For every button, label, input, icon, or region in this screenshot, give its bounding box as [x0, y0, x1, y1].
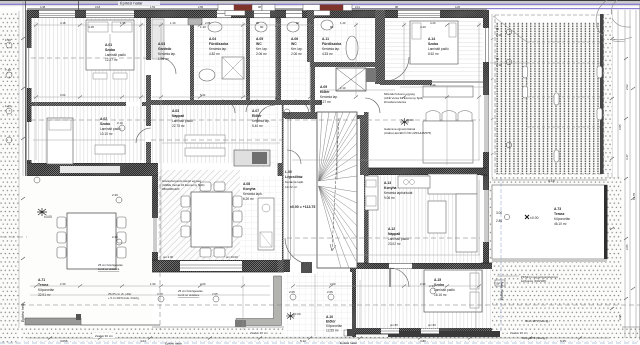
- svg-text:L.00: L.00: [285, 170, 292, 174]
- svg-text:2.30: 2.30: [60, 282, 66, 286]
- svg-text:Építési határ: Építési határ: [165, 341, 182, 345]
- svg-text:2.06 m²: 2.06 m²: [291, 52, 302, 56]
- svg-text:2.00: 2.00: [200, 282, 206, 286]
- svg-text:2.10: 2.10: [117, 121, 123, 125]
- svg-text:2.05: 2.05: [289, 290, 295, 294]
- shaft with X: [336, 68, 376, 91]
- svg-text:1.90: 1.90: [150, 282, 156, 286]
- svg-text:2.05: 2.05: [212, 292, 218, 296]
- terrace A.73 white rect: [492, 179, 608, 340]
- circled markers: [6, 42, 436, 302]
- stairs: [285, 112, 357, 268]
- svg-text:±0.00: ±0.00: [530, 216, 539, 220]
- windows in top wall: [39, 11, 440, 18]
- svg-text:Ker. lap.: Ker. lap.: [291, 47, 303, 51]
- svg-text:Konyha: Konyha: [243, 187, 256, 191]
- dashed lines: [2, 58, 640, 330]
- svg-text:5.27 m²: 5.27 m²: [320, 100, 331, 104]
- svg-text:A.01: A.01: [105, 43, 112, 47]
- svg-text:2.00: 2.00: [330, 282, 336, 286]
- svg-text:Fürdőszoba: Fürdőszoba: [209, 42, 228, 46]
- svg-text:Zsaluk 30 cm: Zsaluk 30 cm: [95, 334, 113, 338]
- A.71 terrace left: [21, 176, 152, 328]
- svg-text:Kerámia lap.: Kerámia lap.: [158, 52, 176, 56]
- svg-text:2.30: 2.30: [112, 235, 118, 239]
- svg-text:4.48: 4.48: [40, 5, 46, 9]
- svg-text:2.10: 2.10: [496, 33, 502, 37]
- stair landing boundary: [288, 119, 291, 260]
- svg-text:Kőporcelán: Kőporcelán: [326, 324, 342, 328]
- dining deck area: [158, 170, 242, 260]
- svg-text:4.53 m²: 4.53 m²: [322, 52, 333, 56]
- left stipple band: [0, 0, 23, 345]
- svg-text:3.065: 3.065: [60, 339, 68, 343]
- svg-text:1.40: 1.40: [5, 38, 11, 42]
- svg-text:pm 80: pm 80: [428, 323, 436, 327]
- stairwell right wall: [364, 112, 369, 263]
- A.02 Szoba: [32, 106, 147, 164]
- blue construction notes: [98, 263, 203, 297]
- svg-text:Laminált padló: Laminált padló: [100, 127, 121, 131]
- svg-text:Szoba: Szoba: [428, 42, 438, 46]
- svg-text:1.10: 1.10: [170, 21, 176, 25]
- exterior right wall: [483, 10, 489, 330]
- A.08 Konyha: [240, 176, 282, 260]
- svg-text:A.02: A.02: [100, 117, 107, 121]
- bottom dimension lines: [27, 337, 610, 339]
- svg-text:5.40 m²: 5.40 m²: [252, 124, 263, 128]
- svg-text:16.16 m²: 16.16 m²: [434, 293, 447, 297]
- svg-text:4.18: 4.18: [88, 25, 94, 29]
- svg-text:3.18: 3.18: [95, 5, 101, 9]
- horizontal wall y168-175 (top of A.12/A.13): [364, 168, 487, 175]
- svg-text:1.52: 1.52: [150, 5, 156, 9]
- svg-text:Ker. lap.: Ker. lap.: [256, 47, 268, 51]
- svg-text:Előtér: Előtér: [320, 90, 330, 94]
- svg-text:4.20: 4.20: [430, 21, 436, 25]
- svg-text:Építési határ: Építési határ: [120, 1, 143, 6]
- tree arcs top-right corner: [596, 0, 632, 41]
- svg-text:9.06 m²: 9.06 m²: [384, 196, 395, 200]
- svg-text:A.03: A.03: [172, 109, 179, 113]
- table: [67, 213, 116, 269]
- svg-text:Szoba: Szoba: [434, 283, 444, 287]
- dotted terrace top-right: [490, 14, 606, 177]
- blue dashed construction-limit line right: [499, 177, 504, 332]
- svg-text:2.05: 2.05: [618, 124, 622, 130]
- A.04 Fürdőszoba: [188, 18, 246, 100]
- svg-text:Kerámia lap.: Kerámia lap.: [252, 119, 270, 123]
- svg-text:1.40: 1.40: [340, 21, 346, 25]
- svg-text:90: 90: [256, 21, 260, 25]
- svg-text:A.04: A.04: [209, 37, 216, 41]
- A.03 Nappali: [151, 105, 282, 163]
- left plot vertical line: [25, 0, 27, 176]
- svg-text:4.82 m²: 4.82 m²: [209, 52, 220, 56]
- svg-text:2.05: 2.05: [618, 314, 622, 320]
- dark bar bottom right: [388, 331, 500, 337]
- bottom stipple strip: [21, 327, 640, 342]
- A.01 Szoba: [32, 18, 147, 102]
- svg-text:90: 90: [330, 25, 334, 29]
- svg-text:Kerámia lap.: Kerámia lap.: [209, 47, 227, 51]
- dining set right wing: [400, 86, 473, 163]
- svg-text:980x600x420: 980x600x420: [162, 187, 180, 191]
- svg-text:Szoba: Szoba: [105, 48, 115, 52]
- svg-text:A.71: A.71: [38, 278, 45, 282]
- svg-text:2.05: 2.05: [327, 290, 333, 294]
- svg-text:WC: WC: [256, 42, 262, 46]
- svg-text:Nappali: Nappali: [172, 114, 184, 118]
- svg-text:A.09: A.09: [320, 85, 327, 89]
- svg-text:Előtér: Előtér: [252, 114, 262, 118]
- top property line band: [0, 0, 640, 9]
- A.10 Előtér entry court: [284, 262, 353, 337]
- vent boxes + maroon blocks on top wall: [218, 5, 352, 16]
- svg-text:Zsaluk 30 cm: Zsaluk 30 cm: [510, 331, 528, 335]
- A.14 Szoba: [385, 18, 483, 81]
- svg-text:2.86: 2.86: [496, 219, 502, 223]
- horizontal wall below A.14: [380, 80, 483, 85]
- svg-text:A.06: A.06: [291, 37, 298, 41]
- svg-text:2.86: 2.86: [625, 244, 629, 250]
- svg-text:22.75 m²: 22.75 m²: [172, 124, 185, 128]
- svg-text:Építési határ: Építési határ: [340, 340, 357, 345]
- svg-text:Konyha: Konyha: [384, 186, 397, 190]
- svg-text:kerül az oldalára: kerül az oldalára: [98, 267, 120, 271]
- svg-text:A.03: A.03: [158, 42, 165, 46]
- svg-text:1.10: 1.10: [200, 25, 206, 29]
- vertical interior walls: [146, 18, 151, 163]
- svg-text:3.80: 3.80: [420, 339, 426, 343]
- svg-text:30cm EPS (hőszig.): 30cm EPS (hőszig.): [525, 319, 550, 323]
- svg-text:Nappali: Nappali: [388, 232, 400, 236]
- bed in A.15: [424, 270, 482, 312]
- svg-text:pm 2.00: pm 2.00: [163, 255, 174, 259]
- wall below A.11: [310, 62, 380, 67]
- right stipple block around terrace A.73: [488, 177, 622, 328]
- svg-text:90: 90: [260, 25, 264, 29]
- svg-text:1.40: 1.40: [5, 104, 11, 108]
- A.13 Konyha: [365, 176, 430, 210]
- exterior top wall: [27, 10, 487, 18]
- svg-text:5.04: 5.04: [200, 93, 206, 97]
- A.04 Gardrob: [151, 18, 190, 100]
- svg-text:A.07: A.07: [252, 109, 259, 113]
- corridor walls near stairs: [285, 115, 365, 175]
- A.06 WC: [281, 18, 307, 100]
- svg-text:pm ±0.00: pm ±0.00: [226, 255, 238, 259]
- svg-text:klímaberendezés: klímaberendezés: [384, 100, 407, 104]
- svg-text:WC: WC: [291, 42, 297, 46]
- main horizontal wall y100-105 (below wet rooms): [146, 100, 322, 105]
- svg-text:1.40: 1.40: [430, 83, 436, 87]
- svg-text:Kerámia lapb.: Kerámia lapb.: [243, 192, 263, 196]
- bottom wall of left wing (y163-176): [27, 163, 158, 176]
- svg-text:Kőporcelán: Kőporcelán: [38, 288, 54, 292]
- dimension margins right: [608, 5, 639, 340]
- BF1 box: [126, 183, 138, 190]
- svg-text:2.86: 2.86: [205, 21, 211, 25]
- A.12 Nappali: [369, 174, 482, 263]
- svg-text:A.73: A.73: [554, 207, 561, 211]
- vertical wall x152-158 y176-268: [152, 176, 158, 268]
- svg-text:Lépcsőház: Lépcsőház: [285, 175, 303, 179]
- svg-text:46.10 m²: 46.10 m²: [554, 222, 567, 226]
- top dimension text row: [88, 25, 426, 29]
- svg-text:Kerámia lapburkolat: Kerámia lapburkolat: [384, 191, 412, 195]
- svg-text:90: 90: [296, 21, 300, 25]
- svg-text:1.94 m²: 1.94 m²: [158, 57, 169, 61]
- svg-text:2.10: 2.10: [496, 63, 502, 67]
- svg-text:12.27 m²: 12.27 m²: [105, 58, 118, 62]
- svg-text:90: 90: [496, 57, 500, 61]
- svg-text:7.40: 7.40: [5, 68, 11, 72]
- svg-text:kétlyúcsú (100/100): kétlyúcsú (100/100): [521, 279, 546, 283]
- sofa: [428, 174, 477, 194]
- window gaps in A.15 bottom wall: [163, 255, 550, 334]
- svg-text:3.00: 3.00: [496, 211, 502, 215]
- svg-text:Építési hely: Építési hely: [499, 281, 504, 300]
- gray retaining bar bottom-left: [25, 314, 160, 325]
- svg-text:A.15: A.15: [434, 278, 441, 282]
- svg-text:2.92: 2.92: [625, 84, 629, 90]
- svg-text:Zsaluk 30 cm: Zsaluk 30 cm: [250, 331, 268, 335]
- svg-text:Kerámia lapb.: Kerámia lapb.: [285, 180, 304, 184]
- svg-text:4.14: 4.14: [548, 179, 555, 183]
- vent unit: [234, 150, 270, 166]
- svg-text:90: 90: [496, 27, 500, 31]
- svg-text:±0.00: ±0.00: [293, 312, 301, 316]
- door arcs: [136, 58, 380, 164]
- svg-text:3.47: 3.47: [625, 154, 629, 160]
- interior dimension chain lines (thin gray): [30, 22, 483, 330]
- svg-text:Laminált padló: Laminált padló: [434, 288, 455, 292]
- svg-text:Szoba: Szoba: [100, 122, 110, 126]
- svg-text:Laminált padló: Laminált padló: [172, 119, 193, 123]
- svg-text:+ 5 cm DFS burk. hőszig.: + 5 cm DFS burk. hőszig.: [108, 296, 140, 300]
- left margin ticks: [21, 37, 25, 305]
- svg-text:Építési hely: Építési hely: [20, 303, 25, 322]
- svg-text:3.04: 3.04: [60, 93, 66, 97]
- svg-text:A.14: A.14: [428, 37, 435, 41]
- A.05 WC: [250, 18, 275, 100]
- svg-text:±0.00: ±0.00: [406, 118, 414, 122]
- svg-text:2.11: 2.11: [355, 5, 360, 9]
- svg-text:16.55: 16.55: [632, 192, 636, 200]
- retaining L-wall bottom middle (light gray): [235, 276, 282, 327]
- svg-text:A.13: A.13: [384, 181, 391, 185]
- door arc A.15: [390, 268, 409, 287]
- svg-text:2.10: 2.10: [340, 86, 346, 90]
- svg-text:A.11: A.11: [322, 37, 329, 41]
- roof overhang band top: [27, 9, 487, 11]
- note texts right wing: [162, 92, 431, 191]
- svg-text:6.20 m²: 6.20 m²: [243, 197, 254, 201]
- svg-text:Terasz: Terasz: [38, 283, 49, 287]
- svg-text:Fürdőszoba: Fürdőszoba: [322, 42, 341, 46]
- wall between A.01 and A.02: [31, 102, 146, 106]
- svg-text:A.08: A.08: [243, 182, 250, 186]
- level star: [169, 192, 184, 200]
- svg-text:4.20: 4.20: [420, 25, 426, 29]
- svg-text:5.12: 5.12: [300, 339, 306, 343]
- svg-text:4.18: 4.18: [60, 21, 66, 25]
- wall top of stairwell: [283, 112, 317, 118]
- svg-text:A.12: A.12: [388, 227, 395, 231]
- A.09 Előtér: [320, 85, 338, 104]
- svg-text:Kerámia lap.: Kerámia lap.: [322, 47, 340, 51]
- svg-text:2.05: 2.05: [157, 292, 163, 296]
- svg-text:8.62 m²: 8.62 m²: [428, 52, 439, 56]
- svg-text:6.35: 6.35: [560, 339, 566, 343]
- svg-text:1.38: 1.38: [120, 21, 126, 25]
- A.11 Fürdőszoba: [315, 18, 375, 62]
- svg-text:Kerámia lap.: Kerámia lap.: [320, 95, 338, 99]
- svg-text:12.55 m²: 12.55 m²: [326, 329, 339, 333]
- svg-text:Laminált padló: Laminált padló: [105, 53, 126, 57]
- svg-text:A.10: A.10: [326, 315, 333, 319]
- svg-text:2.06 m²: 2.06 m²: [256, 52, 267, 56]
- top margin tiny dim texts: [40, 5, 461, 9]
- bottom wall middle y260-272: [152, 260, 290, 272]
- svg-text:pm 80: pm 80: [390, 323, 398, 327]
- svg-text:Laminált padló: Laminált padló: [428, 47, 449, 51]
- svg-text:2.30: 2.30: [420, 282, 426, 286]
- svg-text:10.10 m²: 10.10 m²: [100, 132, 113, 136]
- svg-text:(Araba Hett.EKÖ ÖKI 225/1&15/5: (Araba Hett.EKÖ ÖKI 225/1&15/575): [384, 131, 431, 135]
- svg-text:23.02 m²: 23.02 m²: [388, 242, 401, 246]
- svg-text:2.86: 2.86: [198, 5, 204, 9]
- svg-text:4.20: 4.20: [455, 5, 461, 9]
- svg-text:Kőporcelán: Kőporcelán: [554, 217, 570, 221]
- svg-text:Terasz: Terasz: [554, 212, 565, 216]
- scattered small dimension texts: [60, 21, 436, 286]
- svg-text:Laminált padló: Laminált padló: [388, 237, 409, 241]
- exterior left wall: [27, 10, 37, 176]
- svg-text:±0.00: ±0.00: [44, 215, 52, 219]
- svg-text:Gardrób: Gardrób: [158, 47, 171, 51]
- svg-text:2.30: 2.30: [112, 193, 118, 197]
- svg-text:A.05: A.05: [256, 37, 263, 41]
- door arc stairwell bottom + entry: [285, 238, 311, 264]
- svg-text:10.72 m²: 10.72 m²: [285, 185, 297, 189]
- A.07 Előtér: [250, 105, 278, 168]
- svg-text:Előtér: Előtér: [326, 320, 336, 324]
- svg-text:4.24: 4.24: [140, 339, 146, 343]
